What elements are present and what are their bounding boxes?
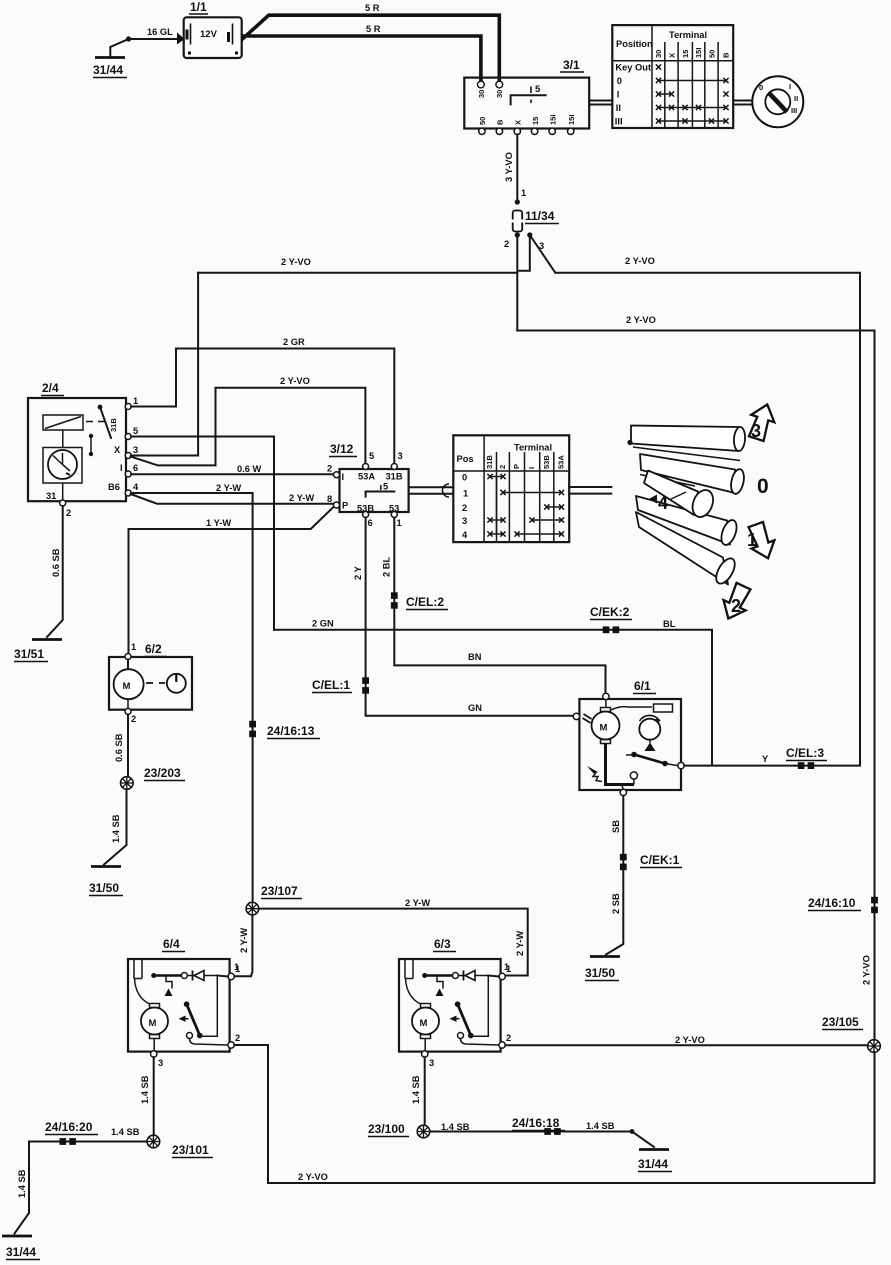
svg-text:3: 3 [158, 1058, 163, 1068]
svg-text:2 Y-VO: 2 Y-VO [675, 1035, 705, 1045]
svg-text:53B: 53B [542, 455, 551, 469]
svg-text:4: 4 [658, 493, 668, 513]
svg-text:31/50: 31/50 [89, 881, 119, 895]
svg-text:24/16:13: 24/16:13 [267, 724, 315, 738]
svg-text:3: 3 [462, 516, 467, 526]
svg-text:2: 2 [327, 464, 332, 474]
svg-text:2 Y-W: 2 Y-W [289, 493, 314, 503]
svg-text:M: M [149, 1018, 157, 1029]
svg-text:2: 2 [731, 596, 741, 616]
svg-text:2 Y-W: 2 Y-W [216, 483, 241, 493]
svg-text:I: I [342, 472, 345, 482]
svg-text:0: 0 [759, 83, 763, 92]
svg-text:2 Y-VO: 2 Y-VO [281, 257, 311, 267]
svg-text:I: I [789, 82, 791, 91]
svg-text:2: 2 [504, 239, 509, 249]
svg-text:M: M [600, 723, 608, 734]
svg-text:1: 1 [506, 964, 511, 974]
svg-text:53A: 53A [557, 455, 566, 469]
svg-text:P: P [342, 501, 348, 511]
svg-text:2: 2 [506, 1033, 511, 1043]
svg-text:2: 2 [235, 1033, 240, 1043]
svg-text:C/EL:1: C/EL:1 [312, 678, 350, 692]
svg-text:2 Y-VO: 2 Y-VO [298, 1172, 328, 1182]
svg-text:3: 3 [751, 421, 761, 441]
svg-text:53A: 53A [358, 472, 375, 482]
svg-text:1.4 SB: 1.4 SB [411, 1075, 421, 1104]
svg-text:5: 5 [535, 84, 541, 95]
svg-text:SB: SB [611, 820, 621, 833]
svg-text:B6: B6 [108, 482, 120, 492]
svg-text:2 BL: 2 BL [382, 557, 392, 577]
svg-text:0: 0 [617, 76, 622, 86]
svg-text:1.4 SB: 1.4 SB [441, 1122, 470, 1132]
svg-text:2 Y-VO: 2 Y-VO [280, 376, 310, 386]
svg-text:31/44: 31/44 [638, 1157, 668, 1171]
svg-text:Pos: Pos [457, 454, 474, 464]
svg-text:1.4 SB: 1.4 SB [111, 1127, 140, 1137]
svg-text:2 GR: 2 GR [283, 337, 305, 347]
svg-text:6: 6 [133, 463, 138, 473]
svg-text:2 Y: 2 Y [353, 565, 363, 580]
svg-text:31B: 31B [485, 455, 494, 469]
svg-text:0: 0 [462, 473, 467, 483]
svg-text:8: 8 [327, 494, 332, 504]
svg-text:M: M [420, 1018, 428, 1029]
svg-text:2 Y-VO: 2 Y-VO [625, 256, 655, 266]
svg-text:C/EL:3: C/EL:3 [786, 746, 824, 760]
svg-text:6/4: 6/4 [163, 937, 180, 951]
svg-text:31/51: 31/51 [14, 647, 44, 661]
svg-text:III: III [615, 117, 623, 127]
svg-text:1: 1 [133, 396, 138, 406]
svg-text:Position: Position [616, 39, 653, 49]
svg-text:23/203: 23/203 [144, 766, 181, 780]
svg-text:3: 3 [398, 451, 403, 461]
svg-text:2 GN: 2 GN [312, 619, 334, 629]
svg-text:X: X [514, 120, 523, 125]
svg-text:15: 15 [531, 117, 540, 125]
svg-text:24/16:20: 24/16:20 [45, 1120, 93, 1134]
svg-text:2/4: 2/4 [42, 381, 59, 395]
svg-text:1.4 SB: 1.4 SB [140, 1075, 150, 1104]
svg-text:5: 5 [383, 482, 388, 492]
svg-text:0.6 SB: 0.6 SB [51, 548, 61, 577]
svg-text:1: 1 [521, 188, 526, 198]
svg-text:2 Y-W: 2 Y-W [239, 928, 249, 953]
svg-text:I: I [527, 467, 536, 469]
svg-text:GN: GN [468, 703, 482, 713]
svg-text:1: 1 [397, 518, 402, 528]
svg-text:15I: 15I [567, 115, 576, 125]
svg-text:31B: 31B [109, 418, 118, 432]
svg-text:2 SB: 2 SB [611, 893, 621, 914]
svg-text:0: 0 [757, 475, 769, 498]
svg-text:Terminal: Terminal [669, 30, 707, 40]
svg-text:11/34: 11/34 [525, 209, 555, 223]
svg-text:X: X [114, 445, 121, 455]
svg-text:2: 2 [498, 465, 507, 469]
svg-text:1: 1 [131, 642, 136, 652]
svg-text:BL: BL [663, 619, 676, 629]
svg-text:31/44: 31/44 [6, 1245, 36, 1259]
svg-text:Terminal: Terminal [514, 443, 552, 453]
svg-text:M: M [123, 681, 131, 692]
svg-text:3: 3 [429, 1058, 434, 1068]
svg-text:2 Y-VO: 2 Y-VO [626, 315, 656, 325]
svg-text:3/1: 3/1 [563, 58, 580, 72]
svg-text:X: X [668, 53, 677, 58]
svg-text:5: 5 [133, 426, 138, 436]
svg-text:1/1: 1/1 [190, 0, 207, 14]
svg-text:23/107: 23/107 [261, 884, 298, 898]
svg-text:1 Y-W: 1 Y-W [206, 518, 231, 528]
svg-text:I: I [617, 90, 620, 100]
svg-text:2: 2 [131, 714, 136, 724]
svg-text:6: 6 [368, 518, 373, 528]
svg-text:5: 5 [369, 451, 374, 461]
svg-text:I: I [120, 463, 123, 473]
svg-text:2 Y-VO: 2 Y-VO [862, 955, 872, 985]
svg-text:C/EK:2: C/EK:2 [590, 605, 630, 619]
svg-text:1.4 SB: 1.4 SB [586, 1121, 615, 1131]
svg-text:Key Out: Key Out [615, 63, 651, 73]
svg-text:30: 30 [477, 90, 486, 98]
svg-text:B: B [496, 119, 505, 125]
svg-text:24/16:18: 24/16:18 [512, 1116, 560, 1130]
svg-text:31: 31 [46, 491, 56, 501]
svg-text:31/50: 31/50 [585, 966, 615, 980]
svg-text:6/2: 6/2 [145, 642, 162, 656]
svg-text:31/44: 31/44 [93, 63, 123, 77]
svg-text:3 Y-VO: 3 Y-VO [504, 152, 514, 182]
svg-text:23/105: 23/105 [822, 1015, 859, 1029]
svg-text:1: 1 [747, 530, 757, 550]
svg-text:II: II [616, 103, 621, 113]
svg-text:0.6 W: 0.6 W [237, 464, 262, 474]
svg-text:30: 30 [654, 50, 663, 58]
svg-text:1: 1 [235, 964, 240, 974]
svg-text:III: III [791, 106, 797, 115]
svg-text:2: 2 [66, 508, 71, 518]
svg-text:50: 50 [478, 117, 487, 125]
svg-text:31B: 31B [386, 472, 403, 482]
svg-text:C/EL:2: C/EL:2 [406, 595, 444, 609]
svg-text:3: 3 [133, 445, 138, 455]
svg-text:BN: BN [468, 652, 482, 662]
svg-text:1: 1 [463, 489, 468, 499]
svg-text:15I: 15I [694, 48, 703, 58]
svg-text:1.4 SB: 1.4 SB [111, 814, 121, 843]
svg-text:23/101: 23/101 [172, 1143, 209, 1157]
svg-text:15I: 15I [549, 115, 558, 125]
svg-text:50: 50 [708, 50, 717, 58]
svg-text:4: 4 [462, 530, 468, 540]
svg-text:1.4 SB: 1.4 SB [17, 1169, 27, 1198]
svg-text:2 Y-W: 2 Y-W [515, 931, 525, 956]
svg-text:2 Y-W: 2 Y-W [405, 898, 430, 908]
svg-text:5 R: 5 R [366, 24, 381, 34]
svg-text:Y: Y [762, 754, 769, 764]
svg-text:16 GL: 16 GL [147, 27, 173, 37]
svg-text:6/1: 6/1 [634, 679, 651, 693]
svg-text:15: 15 [681, 50, 690, 58]
svg-text:C/EK:1: C/EK:1 [640, 853, 680, 867]
svg-text:4: 4 [133, 482, 139, 492]
svg-text:6/3: 6/3 [434, 937, 451, 951]
svg-text:24/16:10: 24/16:10 [808, 896, 856, 910]
svg-text:3/12: 3/12 [330, 442, 354, 456]
svg-text:B: B [722, 52, 731, 58]
svg-text:12V: 12V [200, 29, 218, 40]
svg-text:P: P [512, 464, 521, 469]
svg-text:5 R: 5 R [365, 3, 380, 13]
svg-text:30: 30 [495, 90, 504, 98]
svg-text:0.6 SB: 0.6 SB [114, 733, 124, 762]
svg-text:2: 2 [462, 503, 467, 513]
svg-text:II: II [794, 94, 798, 103]
svg-text:23/100: 23/100 [368, 1122, 405, 1136]
